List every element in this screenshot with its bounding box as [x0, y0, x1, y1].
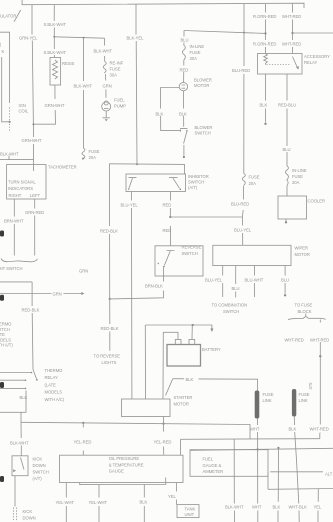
svg-text:WHT: WHT [250, 427, 260, 432]
svg-text:RED-BLU: RED-BLU [278, 102, 296, 107]
svg-text:BLK-WHT: BLK-WHT [94, 49, 113, 54]
wire alternator horizontal [270, 471, 323, 473]
cooler box [278, 196, 307, 219]
ground cooler [285, 219, 287, 221]
wire BLK drop [277, 472, 279, 522]
node GRN arrowhead [81, 292, 84, 295]
svg-text:20A: 20A [249, 181, 257, 186]
wire battery feed to starter left [144, 325, 146, 399]
svg-text:S.BLK-WHT: S.BLK-WHT [44, 22, 67, 27]
svg-text:BLK-WHT: BLK-WHT [74, 84, 93, 89]
solenoid kick down dashes [13, 508, 16, 521]
svg-text:GRN: GRN [53, 292, 62, 297]
svg-text:GRN-WHT: GRN-WHT [45, 103, 65, 108]
svg-text:INHIBITOR: INHIBITOR [188, 174, 209, 179]
wire BLK relay output [265, 74, 267, 122]
wire lower bus B [181, 439, 320, 456]
svg-text:BATTERY: BATTERY [202, 347, 221, 352]
fuse IN-LINE FUSE 30A symbol [182, 46, 185, 61]
svg-text:375: 375 [308, 382, 313, 390]
wire S.BLK-WHT resistor feed [33, 5, 55, 125]
svg-text:R.GRN-RED: R.GRN-RED [253, 42, 276, 47]
wire GRN arrow line [0, 293, 82, 295]
svg-text:BLU-YEL: BLU-YEL [205, 278, 223, 283]
wire bus C [268, 488, 333, 491]
svg-text:WHT-BLK: WHT-BLK [289, 504, 308, 509]
svg-text:SWITCH: SWITCH [33, 470, 49, 475]
svg-text:|: | [0, 42, 1, 47]
svg-text:TACHOMETER: TACHOMETER [48, 164, 77, 169]
svg-text:BLK-YEL: BLK-YEL [127, 36, 145, 41]
svg-text:MOTOR: MOTOR [194, 83, 209, 88]
svg-text:TURN SIGNAL: TURN SIGNAL [8, 180, 36, 185]
wire battery left post lead [163, 332, 178, 399]
svg-text:IN-LINE: IN-LINE [292, 168, 307, 173]
svg-text:MOTOR: MOTOR [295, 252, 310, 257]
svg-text:REVERSE: REVERSE [182, 245, 202, 250]
wire tach feed horizontal [0, 156, 34, 160]
node fuse arrow end [82, 158, 85, 161]
svg-text:COOLER: COOLER [308, 198, 325, 203]
svg-text:BLU-WHT: BLU-WHT [245, 278, 264, 283]
svg-text:GRN-RED: GRN-RED [25, 210, 44, 215]
svg-text:FUEL: FUEL [203, 457, 214, 462]
wire RED-BLK light switch drop [31, 282, 34, 370]
wire RED-BLU relay output [286, 74, 288, 196]
switch inhibitor left contact [129, 178, 137, 188]
svg-text:RELAY: RELAY [304, 60, 317, 65]
wire main horizontal to fuel pump branch [54, 37, 104, 38]
svg-text:COIL: COIL [19, 109, 29, 114]
node junction resistor feed [53, 36, 55, 38]
svg-text:(A/T): (A/T) [188, 185, 198, 190]
wire inhibitor feed horizontal [109, 164, 184, 174]
svg-text:WITH A/C): WITH A/C) [45, 397, 65, 402]
ground fuel pump [103, 111, 110, 118]
svg-text:SWITCH: SWITCH [195, 130, 211, 135]
wire RED inhibitor output [169, 192, 171, 246]
wire YEL-WHT left [65, 483, 67, 522]
svg-text:BRN-WHT: BRN-WHT [4, 219, 24, 224]
svg-text:LINK: LINK [263, 398, 272, 403]
svg-text:BLK: BLK [260, 102, 268, 107]
svg-text:FUSE: FUSE [110, 67, 121, 72]
svg-text:KICK: KICK [23, 509, 33, 514]
wire YEL-RED gauge feed 1 [82, 423, 84, 455]
wire battery right post lead [191, 325, 193, 340]
wire WHT-RED relay feed [292, 3, 294, 53]
svg-text:RED-BLK: RED-BLK [101, 326, 119, 331]
svg-text:RED: RED [180, 67, 189, 72]
svg-text:RESIS: RESIS [62, 61, 75, 66]
svg-text:RELAY: RELAY [45, 375, 58, 380]
edge mark 2 [0, 295, 4, 301]
svg-text:BLU: BLU [181, 37, 189, 42]
svg-text:& TEMPERATURE: & TEMPERATURE [109, 462, 144, 467]
svg-text:THERMO: THERMO [0, 322, 12, 327]
svg-text:LINK: LINK [299, 398, 308, 403]
svg-text:RED-BLK: RED-BLK [22, 308, 40, 313]
node junction BLK-WHT drop [83, 37, 85, 39]
node junction WHT-RED dot [319, 355, 321, 357]
wire RED-BLK fender lights [108, 164, 110, 351]
svg-text:FUSE: FUSE [263, 392, 274, 397]
svg-text:GRN-YEL: GRN-YEL [19, 36, 38, 41]
svg-text:BLU-YEL: BLU-YEL [121, 203, 139, 208]
relay thermo contact lines [0, 373, 32, 389]
motor wiper box [213, 245, 291, 265]
wire top bus [22, 0, 304, 8]
switch kick down box [12, 456, 28, 476]
svg-text:WHT-RED: WHT-RED [282, 42, 301, 47]
wire alternator branch [277, 448, 279, 472]
node junction starter [162, 423, 164, 425]
wire YEL-RED gauge feed 2 [163, 424, 165, 455]
svg-text:30A: 30A [110, 73, 118, 78]
wire BLK gauge [143, 484, 145, 522]
svg-text:S.BLK-WHT: S.BLK-WHT [44, 50, 67, 55]
node junction at GRN-YEL wire [32, 123, 34, 125]
svg-text:AMMETER: AMMETER [203, 469, 224, 474]
svg-text:MODELS: MODELS [45, 390, 63, 395]
svg-text:FUSE: FUSE [299, 392, 310, 397]
ground BLK dot [264, 123, 266, 125]
wire BLK diagonal to starter [166, 379, 173, 396]
svg-text:RED-BLK: RED-BLK [100, 229, 118, 234]
wire GRN-YEL vertical [32, 5, 34, 171]
svg-text:WHT-RED: WHT-RED [310, 337, 329, 342]
wire wiper output 2 [235, 266, 237, 298]
svg-text:ACCESSORY: ACCESSORY [304, 54, 330, 59]
svg-text:FUSE: FUSE [249, 175, 260, 180]
svg-text:RE-INF: RE-INF [110, 61, 124, 66]
switch blower contacts [180, 129, 188, 132]
wire battery positive bus [145, 325, 212, 329]
svg-text:WHT-RED: WHT-RED [282, 14, 301, 19]
ground wiper output4 dot [284, 294, 286, 296]
svg-text:R.GRN-RED: R.GRN-RED [253, 14, 276, 19]
svg-text:K: K [2, 49, 5, 54]
svg-text:UNIT: UNIT [185, 512, 195, 517]
tank unit box [177, 505, 199, 518]
svg-text:WIPER: WIPER [295, 246, 309, 251]
wire BLK-WHT bottom [233, 439, 235, 522]
svg-text:YEL-WHT: YEL-WHT [56, 500, 75, 505]
svg-text:WITH A/T): WITH A/T) [0, 343, 13, 348]
svg-text:BLOWER: BLOWER [194, 78, 212, 83]
wire thermo relay output [0, 391, 26, 423]
node junction BLK-YEL at inhibitor feed [136, 163, 138, 165]
svg-text:GRN: GRN [103, 84, 112, 89]
wire GRN-RED relay feed [265, 4, 267, 54]
fuse IN-LINE FUSE 20A symbol [286, 166, 289, 186]
relay accessory box [258, 54, 303, 75]
svg-text:BLK: BLK [273, 504, 281, 509]
svg-text:BLU-RED: BLU-RED [232, 68, 250, 73]
wire in-line fuse drop [183, 31, 185, 83]
wire main lower bus L1 [21, 422, 250, 439]
switch kick down blade [21, 458, 25, 470]
svg-text:BLK: BLK [156, 111, 164, 116]
svg-text:PUMP: PUMP [114, 104, 126, 109]
svg-text:WHT-RED: WHT-RED [310, 427, 329, 432]
wire fuse link 2 output [294, 416, 299, 522]
node junction WHT-RED [291, 32, 293, 34]
switch reverse contact [164, 251, 174, 266]
svg-text:30A: 30A [190, 56, 198, 61]
relay accessory blade [293, 57, 298, 68]
node junction RED wire [169, 216, 171, 218]
wire fuel pump branch vertical [105, 38, 107, 98]
tachometer box [7, 165, 46, 200]
wire turn indicator left drop [13, 199, 15, 256]
svg-text:BLK: BLK [186, 377, 194, 382]
wire BRN-BLK reverse output [110, 268, 164, 299]
svg-text:STARTER: STARTER [174, 395, 193, 400]
svg-text:BLK-WHT: BLK-WHT [0, 152, 19, 157]
node coil junction dot [9, 121, 11, 123]
fuse FUSE 20A symbol [82, 148, 85, 158]
svg-text:DOWN: DOWN [23, 516, 36, 521]
wire blower motor bottom lead [182, 91, 184, 127]
wire BLK-WHT fuse drop [83, 38, 85, 148]
svg-text:TO FUSE: TO FUSE [295, 303, 313, 308]
wire blower fuse horizontal [184, 31, 266, 34]
wire accessory bus right [293, 32, 333, 34]
svg-text:FUSE: FUSE [292, 174, 303, 179]
brace light switch [1, 259, 38, 262]
svg-text:SWITCH: SWITCH [182, 251, 198, 256]
svg-text:BLU-YEL: BLU-YEL [234, 227, 252, 232]
wire BLU-RED long vertical [242, 4, 244, 246]
wire main bus A [190, 448, 333, 450]
wire alternator down link [267, 472, 269, 490]
wire gauge bottom link [80, 478, 166, 485]
svg-text:WHT: WHT [252, 504, 262, 509]
edge mark 4 [0, 476, 4, 482]
svg-text:RED: RED [163, 203, 172, 208]
svg-text:BLK-WHT: BLK-WHT [225, 504, 244, 509]
svg-text:IN-LINE: IN-LINE [190, 44, 205, 49]
svg-text:RED: RED [163, 228, 172, 233]
svg-text:RIGHT: RIGHT [9, 193, 22, 198]
svg-text:BLOWER: BLOWER [195, 125, 213, 130]
wire wiper output 1 [222, 266, 224, 298]
svg-text:ALT: ALT [325, 472, 333, 477]
node junction WHT at bus A [257, 448, 259, 450]
svg-text:SWITCH: SWITCH [223, 309, 239, 314]
relay accessory dashed link [267, 64, 291, 66]
wire coil lower dashes [9, 124, 11, 131]
svg-text:20A: 20A [292, 180, 300, 185]
motor blower M [179, 82, 187, 90]
svg-text:BLU: BLU [283, 147, 291, 152]
node junction GRN-RED [264, 32, 266, 34]
wire coil left lead [2, 57, 10, 122]
wire WHT-RED fusible feed [319, 320, 322, 439]
fuse link 2 bar [292, 389, 296, 417]
svg-text:BLK: BLK [179, 111, 187, 116]
wire BLK battery to fuse link [173, 379, 258, 391]
svg-text:FUSE: FUSE [190, 50, 201, 55]
wire BLK-YEL vertical [136, 4, 137, 165]
ignition coil dashed link [9, 107, 11, 121]
node battery arrow [210, 329, 213, 333]
svg-text:TO REVERSE: TO REVERSE [94, 354, 121, 359]
svg-text:DOWN: DOWN [33, 463, 46, 468]
svg-text:FUSE: FUSE [89, 149, 100, 154]
svg-text:REGULATOR: REGULATOR [0, 14, 16, 19]
wire kick down output [14, 476, 16, 507]
switch reverse box [155, 246, 203, 276]
gauge fuel box [190, 450, 268, 477]
svg-text:YEL-RED: YEL-RED [74, 439, 92, 444]
wire light switch horizontal [0, 281, 32, 283]
brace fuse block [288, 316, 326, 319]
svg-text:BLU-RED: BLU-RED [231, 202, 249, 207]
svg-text:OIL PRESSURE: OIL PRESSURE [109, 456, 140, 461]
wire YEL-WHT right [98, 485, 100, 522]
svg-text:TO COMBINATION: TO COMBINATION [212, 303, 248, 308]
svg-text:WHT-RED: WHT-RED [285, 337, 304, 342]
node junction RED-BLK wire [109, 298, 111, 300]
svg-text:GAUGE: GAUGE [109, 469, 124, 474]
svg-text:BLK-WHT: BLK-WHT [10, 440, 29, 445]
svg-text:20A: 20A [89, 155, 97, 160]
wire regulator lead diagonal [14, 10, 21, 22]
svg-text:(LATE: (LATE [45, 382, 57, 387]
svg-text:TANK: TANK [185, 506, 196, 511]
svg-text:GRN-WHT: GRN-WHT [22, 138, 42, 143]
node junction kick-down [82, 422, 84, 424]
svg-text:INDICATORS: INDICATORS [8, 186, 33, 191]
svg-text:YEL-RED: YEL-RED [154, 439, 172, 444]
svg-text:YEL-WHT: YEL-WHT [89, 500, 108, 505]
node fuse block arrow [305, 314, 307, 317]
svg-text:GRN: GRN [79, 269, 88, 274]
wire BLU-YEL inhibitor output [130, 192, 133, 400]
svg-text:LIGHT SWITCH: LIGHT SWITCH [0, 266, 22, 271]
wire YEL drop [317, 489, 319, 522]
svg-text:BRN-BLK: BRN-BLK [145, 284, 163, 289]
relay thermo blade [33, 370, 37, 379]
svg-text:SWITCH: SWITCH [188, 180, 204, 185]
svg-text:MOTOR: MOTOR [174, 402, 189, 407]
wire WHT fuse link 1 output [257, 419, 259, 522]
battery box [167, 345, 201, 367]
fuse FUSE 20A right symbol [242, 174, 245, 186]
svg-text:YEL: YEL [314, 504, 323, 509]
wire turn indicator right drop [34, 199, 36, 256]
battery posts [175, 340, 181, 345]
resistor ballast [50, 58, 61, 86]
relay accessory coil [264, 54, 268, 65]
node junction BLU-RED wire [243, 32, 245, 34]
svg-text:(A/T): (A/T) [33, 476, 43, 481]
svg-text:BLK: BLK [289, 427, 297, 432]
edge mark 3 [0, 382, 4, 388]
svg-text:BLOCK: BLOCK [298, 309, 312, 314]
wire starter output [163, 417, 165, 424]
svg-text:FUEL: FUEL [114, 98, 125, 103]
svg-text:BLU: BLU [232, 286, 240, 291]
wire RED to wiper feed horizontal [170, 216, 242, 218]
wire BLK-WHT kick down feed [20, 422, 22, 456]
node blower switch end dot [183, 156, 185, 158]
switch inhibitor right contact [169, 178, 180, 189]
wire blower motor left lead [161, 88, 181, 131]
svg-text:BLU: BLU [281, 278, 289, 283]
edge mark 1 [0, 231, 4, 237]
svg-text:LEFT: LEFT [30, 193, 41, 198]
wire wiper output 4 [284, 266, 286, 294]
svg-text:THERMO: THERMO [45, 368, 64, 373]
node junction battery plus [192, 324, 194, 326]
node junction alternator branch [277, 447, 279, 449]
svg-text:GAUGE &: GAUGE & [203, 463, 222, 468]
svg-text:LIGHTS: LIGHTS [102, 360, 117, 365]
wire YEL tank [175, 483, 177, 505]
svg-text:BLK: BLK [140, 500, 148, 505]
wire wiper output 3 [254, 266, 256, 298]
regulator box corner [0, 32, 10, 103]
fuse link 1 bar [255, 391, 260, 419]
svg-text:(LATE: (LATE [0, 332, 5, 337]
fuel pump motor symbol [104, 101, 108, 105]
svg-text:KICK: KICK [33, 457, 43, 462]
motor starter box [122, 399, 171, 417]
svg-text:YEL: YEL [168, 494, 177, 499]
wire blower switch output [183, 145, 185, 156]
gauge oil pressure box [60, 455, 184, 482]
switch inhibitor box [126, 174, 186, 192]
fuse RE-INF FUSE 30A symbol [103, 62, 106, 73]
svg-text:IGN: IGN [19, 103, 26, 108]
switch blower blade [184, 132, 187, 144]
